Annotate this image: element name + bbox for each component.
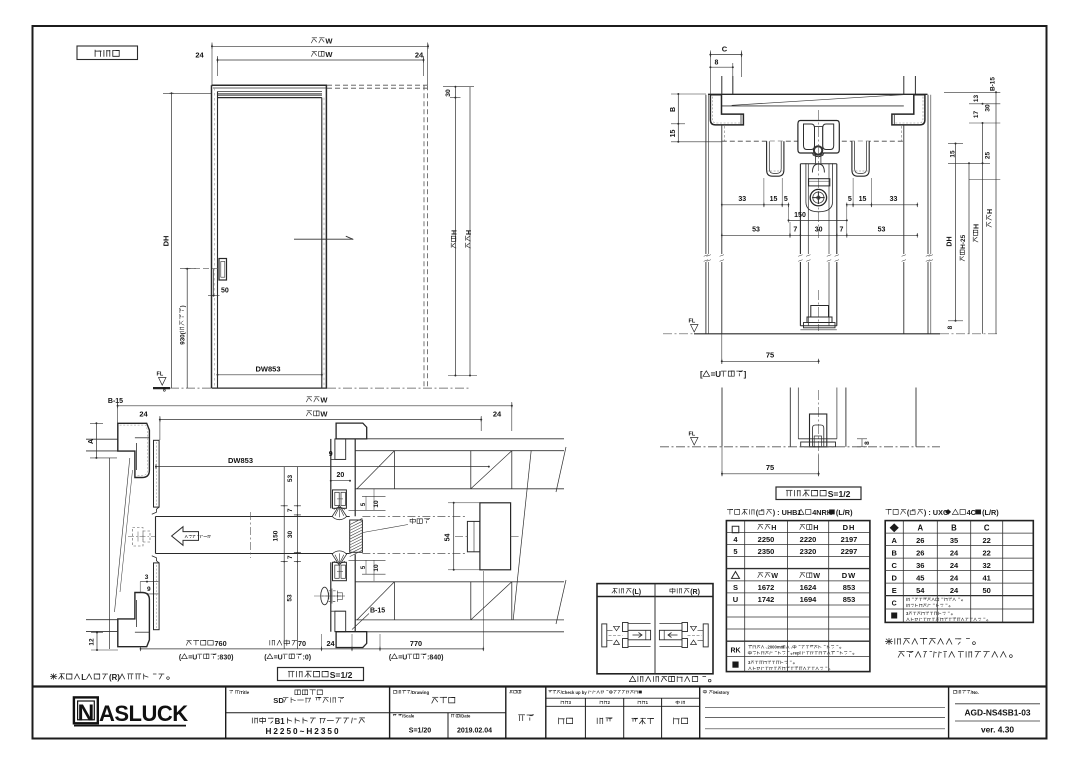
svg-text:8: 8 [864, 441, 871, 445]
svg-text:24: 24 [415, 51, 424, 60]
svg-text:H-25: H-25 [960, 234, 967, 248]
section dim 75 bottom [721, 334, 723, 364]
svg-text:8: 8 [163, 388, 166, 394]
front view pocket dashed outline [327, 84, 428, 86]
section lintel head board [708, 93, 928, 95]
section right dim lines [955, 144, 957, 321]
svg-text:22: 22 [983, 548, 991, 557]
svg-text:RK: RK [730, 648, 740, 655]
table door body header [727, 508, 853, 517]
svg-text:2250: 2250 [758, 535, 775, 544]
section detail caption box 2 [776, 487, 861, 500]
plan side screw detail lower [321, 587, 329, 605]
front view dim 枠内W top with 24 offsets [218, 59, 424, 61]
svg-text:FL: FL [689, 432, 696, 438]
section hanger bolt nut [814, 146, 822, 154]
svg-text:W: W [320, 396, 328, 405]
svg-text:15: 15 [950, 150, 957, 158]
svg-text:24: 24 [195, 51, 204, 60]
svg-text:15: 15 [670, 130, 677, 138]
svg-text:repl: repl [793, 651, 801, 656]
svg-text:12: 12 [89, 638, 96, 646]
svg-text:B: B [670, 107, 677, 112]
svg-text:DW853: DW853 [228, 456, 253, 465]
svg-text:]: ] [744, 370, 747, 379]
svg-text:S: S [733, 583, 738, 592]
svg-text:AGD-NS4SB1-03: AGD-NS4SB1-03 [964, 708, 1030, 718]
svg-text:150: 150 [794, 212, 806, 219]
svg-text:W: W [325, 37, 333, 46]
svg-text:C: C [984, 523, 990, 532]
svg-text::0): :0) [303, 654, 312, 661]
svg-text:2350: 2350 [758, 547, 775, 556]
svg-text:DH: DH [947, 236, 954, 246]
plan door dashed into pocket [362, 516, 467, 518]
svg-text:=U: =U [274, 654, 283, 661]
svg-text:2197: 2197 [841, 535, 858, 544]
plan band end marks [556, 447, 566, 492]
svg-text:/Drawing: /Drawing [411, 690, 430, 695]
svg-text:8: 8 [947, 325, 954, 329]
plan dims 5 10 lower [362, 573, 386, 575]
plan dim DW853 [156, 466, 489, 468]
plan dim 54 [453, 503, 455, 570]
svg-text:H: H [452, 230, 459, 235]
U-case dim 75 [721, 447, 723, 476]
svg-text:/Scale: /Scale [402, 714, 415, 719]
plan pocket end post [480, 503, 511, 570]
section hanger bracket right [852, 141, 869, 176]
svg-text:W: W [320, 410, 328, 419]
plan dim 12 [96, 633, 98, 651]
section left head frame L-profile [710, 95, 743, 125]
svg-text:2019.02.04: 2019.02.04 [457, 728, 492, 735]
hikite left diagram [602, 624, 607, 647]
svg-text:(L): (L) [632, 589, 641, 596]
svg-text:E: E [892, 586, 897, 595]
svg-text:(L/R): (L/R) [982, 508, 999, 517]
svg-text:H: H [987, 209, 994, 214]
U-case wall verticals [721, 388, 723, 447]
hikite right diagram [703, 624, 708, 647]
svg-text:7: 7 [793, 226, 797, 233]
svg-text:3: 3 [145, 574, 149, 581]
section door panel column [799, 164, 801, 254]
svg-text::840): :840) [427, 654, 443, 661]
svg-text:S=1/2: S=1/2 [828, 489, 851, 499]
title cell approver [510, 690, 521, 693]
plan dim 枠内W [160, 419, 481, 421]
section dim row 33 15 5 [722, 204, 789, 206]
section track soffit dashed [722, 140, 904, 142]
svg-text:A: A [917, 523, 923, 532]
svg-text:S=1/2: S=1/2 [330, 670, 353, 680]
svg-text:2297: 2297 [841, 547, 858, 556]
front view dim 枠外W top [212, 45, 428, 47]
plan cushion label [410, 519, 430, 524]
svg-text:9: 9 [147, 586, 151, 593]
svg-text:33: 33 [738, 196, 746, 203]
svg-text:B-15: B-15 [370, 608, 385, 615]
svg-text:853: 853 [843, 583, 856, 592]
svg-text:150: 150 [273, 530, 280, 541]
section hanger bracket left [767, 141, 784, 176]
svg-text:10: 10 [373, 500, 380, 508]
section centerline vertical [818, 110, 820, 238]
U-case dim 8 [857, 438, 867, 440]
svg-text:53: 53 [878, 226, 886, 233]
plan left pocket board upper [154, 440, 160, 507]
svg-text:8: 8 [715, 60, 719, 67]
section upper wall studs [721, 76, 723, 94]
svg-text:/Check up by: /Check up by [561, 690, 588, 695]
table door body grid [726, 521, 870, 672]
title cell checkup header [549, 690, 642, 695]
svg-text:S=1/20: S=1/20 [409, 728, 431, 735]
section right head frame L-profile [892, 95, 925, 125]
svg-text:H2250~H2350: H2250~H2350 [265, 727, 340, 736]
svg-text:H: H [813, 523, 818, 532]
svg-text:B: B [951, 523, 957, 532]
plan cushion hatch 緩衝材 [350, 520, 363, 552]
U-case floor dashed [660, 446, 940, 448]
svg-text:/No.: /No. [971, 690, 979, 695]
title cell name label [230, 690, 250, 695]
svg-text:(L/R): (L/R) [836, 508, 853, 517]
plan dim 枠外W [118, 405, 512, 407]
svg-text:26: 26 [916, 548, 924, 557]
table frame texts [890, 523, 899, 532]
svg-text:25: 25 [985, 152, 992, 160]
front view dim 930 handle center [186, 269, 188, 388]
front view dim 50 handle [213, 269, 215, 296]
svg-text:30: 30 [445, 89, 452, 97]
plan latch detail dashed [133, 528, 144, 547]
plan soft-close arrow [172, 527, 199, 546]
svg-text:A: A [88, 439, 95, 444]
svg-text:=U: =U [711, 370, 722, 379]
note hikite selectable [885, 638, 975, 644]
svg-text:35: 35 [950, 536, 958, 545]
svg-text:54: 54 [445, 534, 452, 542]
svg-text:53: 53 [286, 594, 293, 602]
svg-text:30: 30 [985, 104, 992, 112]
svg-text:36: 36 [916, 561, 924, 570]
svg-text:53: 53 [287, 475, 294, 483]
svg-text:24: 24 [950, 561, 959, 570]
svg-text:24: 24 [950, 586, 959, 595]
svg-text:5: 5 [784, 196, 788, 203]
svg-text:FL: FL [689, 319, 696, 325]
svg-text:770: 770 [410, 639, 422, 648]
svg-text:30: 30 [287, 531, 294, 539]
svg-text:7: 7 [287, 508, 294, 512]
front view dim DH [171, 93, 173, 388]
svg-text:24: 24 [950, 548, 959, 557]
svg-text:2220: 2220 [800, 535, 817, 544]
svg-text:=U: =U [188, 654, 197, 661]
section floor line [694, 333, 940, 335]
plan left jamb upper casing [118, 423, 150, 477]
svg-text:ver. 4.30: ver. 4.30 [981, 725, 1014, 735]
svg-text:7: 7 [840, 226, 844, 233]
U-case floor guide [810, 414, 827, 447]
svg-text:C: C [891, 561, 897, 570]
svg-text:C: C [892, 600, 897, 607]
svg-text:15: 15 [859, 196, 867, 203]
front view door handle 引手 [219, 259, 227, 281]
svg-text:) : UHB1: ) : UHB1 [773, 508, 802, 517]
plan dim A [95, 423, 97, 458]
svg-text:24: 24 [326, 639, 335, 648]
svg-text:22: 22 [983, 536, 991, 545]
section left wall lines [705, 95, 707, 254]
svg-text:50: 50 [983, 586, 991, 595]
U-case label [700, 370, 747, 379]
plan dim 20 upper [331, 480, 350, 482]
section right wall lines [927, 95, 929, 254]
front view dim DW853 [218, 374, 322, 376]
plan middle jamb lower [336, 632, 367, 648]
title cell drawing number [954, 690, 979, 695]
svg-text:1624: 1624 [800, 583, 818, 592]
plan bottom dim line [141, 648, 484, 650]
section lintel diagonal shim [732, 95, 904, 106]
svg-text:W: W [325, 50, 333, 59]
front view dim line 枠内H [454, 87, 456, 376]
plan screw cap fan upper [332, 505, 346, 520]
section anchor screw head [810, 189, 826, 205]
svg-text:(R): (R) [690, 589, 700, 596]
svg-text:B-15: B-15 [990, 77, 997, 91]
section right dim ticks [944, 91, 1000, 93]
section roller housing [798, 121, 839, 154]
plan middle jamb screw housing lower [333, 562, 347, 580]
svg-text:9: 9 [329, 451, 333, 458]
plan middle jamb screw housing upper [333, 490, 347, 508]
section hanger bolt shaft [815, 153, 817, 163]
svg-text:5: 5 [733, 547, 737, 556]
svg-text:W: W [771, 571, 778, 580]
svg-text:930(: 930( [180, 331, 187, 344]
svg-text:/Title: /Title [239, 690, 250, 695]
svg-text:H: H [771, 523, 776, 532]
svg-text:33: 33 [890, 196, 898, 203]
plan long break slash [513, 450, 531, 619]
svg-text:C: C [722, 45, 728, 54]
plan wall stud strip left [109, 458, 111, 649]
section dim 150 [789, 219, 847, 221]
front view slide direction arrow [294, 238, 353, 240]
section dim extension stubs [763, 178, 765, 207]
plan door panel [156, 516, 350, 518]
svg-text:75: 75 [766, 351, 774, 360]
section break marks [704, 255, 708, 257]
hikite caption [629, 676, 711, 682]
svg-text:B: B [891, 548, 897, 557]
svg-text:15: 15 [770, 196, 778, 203]
section dim B and 15 left [677, 94, 679, 142]
svg-text:U: U [733, 595, 738, 604]
svg-text:50: 50 [221, 288, 229, 295]
svg-text:DW853: DW853 [255, 365, 280, 374]
svg-text:W: W [813, 571, 820, 580]
svg-text:75: 75 [766, 463, 774, 472]
front view left jamb [211, 85, 213, 388]
svg-text:20: 20 [337, 472, 345, 479]
front view floor line [153, 387, 170, 389]
table door body texts [732, 526, 739, 533]
svg-text:L: L [81, 673, 86, 682]
svg-text:1672: 1672 [758, 583, 775, 592]
title block frame [33, 685, 1047, 687]
plan screw cap fan lower [332, 551, 346, 566]
svg-text:H: H [466, 230, 473, 235]
svg-text:32: 32 [983, 561, 991, 570]
plan left pocket board lower [154, 563, 160, 630]
front view door frame head [212, 84, 328, 86]
svg-text:70: 70 [298, 639, 306, 648]
svg-text:=U: =U [398, 654, 407, 661]
plan left jamb lower casing [118, 593, 150, 647]
table frame header [886, 508, 999, 517]
svg-text:DH: DH [843, 523, 856, 532]
plan note L/R [50, 673, 169, 682]
title cell history [703, 690, 730, 695]
table frame grid [885, 521, 1033, 623]
svg-text:10: 10 [373, 564, 380, 572]
svg-text:54: 54 [916, 586, 925, 595]
svg-text:4C: 4C [967, 508, 977, 517]
svg-text:24: 24 [493, 410, 502, 419]
plan dims 5 10 upper [362, 495, 386, 497]
svg-text:853: 853 [843, 595, 856, 604]
svg-text:DW: DW [842, 571, 857, 580]
svg-text:H: H [974, 224, 981, 229]
svg-text:/Date: /Date [460, 714, 471, 719]
plan middle jamb upper [336, 423, 367, 439]
plan bottom dim labels [186, 639, 226, 648]
svg-text:24: 24 [950, 573, 959, 582]
svg-text:26: 26 [916, 536, 924, 545]
svg-text:B-15: B-15 [108, 398, 123, 405]
plan lower pocket wall band [367, 631, 564, 633]
section dim row 53 7 30 7 53 [722, 234, 918, 236]
svg-text:/History: /History [713, 690, 730, 695]
section bolt anchor pocket in door [805, 163, 807, 202]
svg-text:13: 13 [973, 95, 980, 103]
front view dim 30 top right [443, 86, 474, 88]
svg-text::830): :830) [217, 654, 233, 661]
svg-text:24: 24 [139, 410, 148, 419]
svg-text:FL: FL [157, 372, 164, 378]
svg-text:5: 5 [848, 196, 852, 203]
svg-text:30: 30 [815, 226, 823, 233]
svg-text:SD: SD [273, 696, 284, 705]
svg-text:) : UXC: ) : UXC [924, 508, 949, 517]
nasluck logo [74, 697, 98, 723]
svg-text:7: 7 [287, 555, 294, 559]
plan upper pocket wall band [367, 438, 564, 440]
plan left wall lower [86, 619, 118, 621]
svg-text:A: A [891, 536, 897, 545]
svg-text:41: 41 [983, 573, 991, 582]
svg-text:D: D [891, 573, 897, 582]
svg-text:53: 53 [752, 226, 760, 233]
svg-text:B1: B1 [275, 717, 286, 726]
svg-text:760: 760 [215, 639, 227, 648]
svg-text:): ) [180, 305, 187, 307]
plan left wall upper [86, 438, 118, 440]
front view dim line 枠外H [469, 87, 471, 376]
U-case channel bottom [798, 438, 837, 440]
svg-text:[: [ [700, 370, 703, 379]
svg-text:17: 17 [973, 111, 980, 119]
svg-text:1694: 1694 [800, 595, 818, 604]
svg-text:N: N [78, 699, 95, 725]
svg-text:ASLUCK: ASLUCK [99, 701, 188, 726]
svg-text:1742: 1742 [758, 595, 775, 604]
svg-text:2320: 2320 [800, 547, 817, 556]
svg-text:(R): (R) [109, 673, 120, 682]
section floor guide [811, 306, 829, 318]
plan caption box 断面詳細図 [278, 668, 364, 681]
svg-text:DH: DH [162, 236, 171, 247]
front view title box 正面図 [77, 46, 138, 60]
plan dims 3 and 9 left [140, 581, 158, 583]
svg-text:45: 45 [916, 573, 924, 582]
hikite box frame [597, 584, 713, 674]
front view door right edge [321, 98, 323, 388]
title cell drawing type [394, 690, 430, 695]
plan center dim lines 150/30 [283, 467, 285, 649]
